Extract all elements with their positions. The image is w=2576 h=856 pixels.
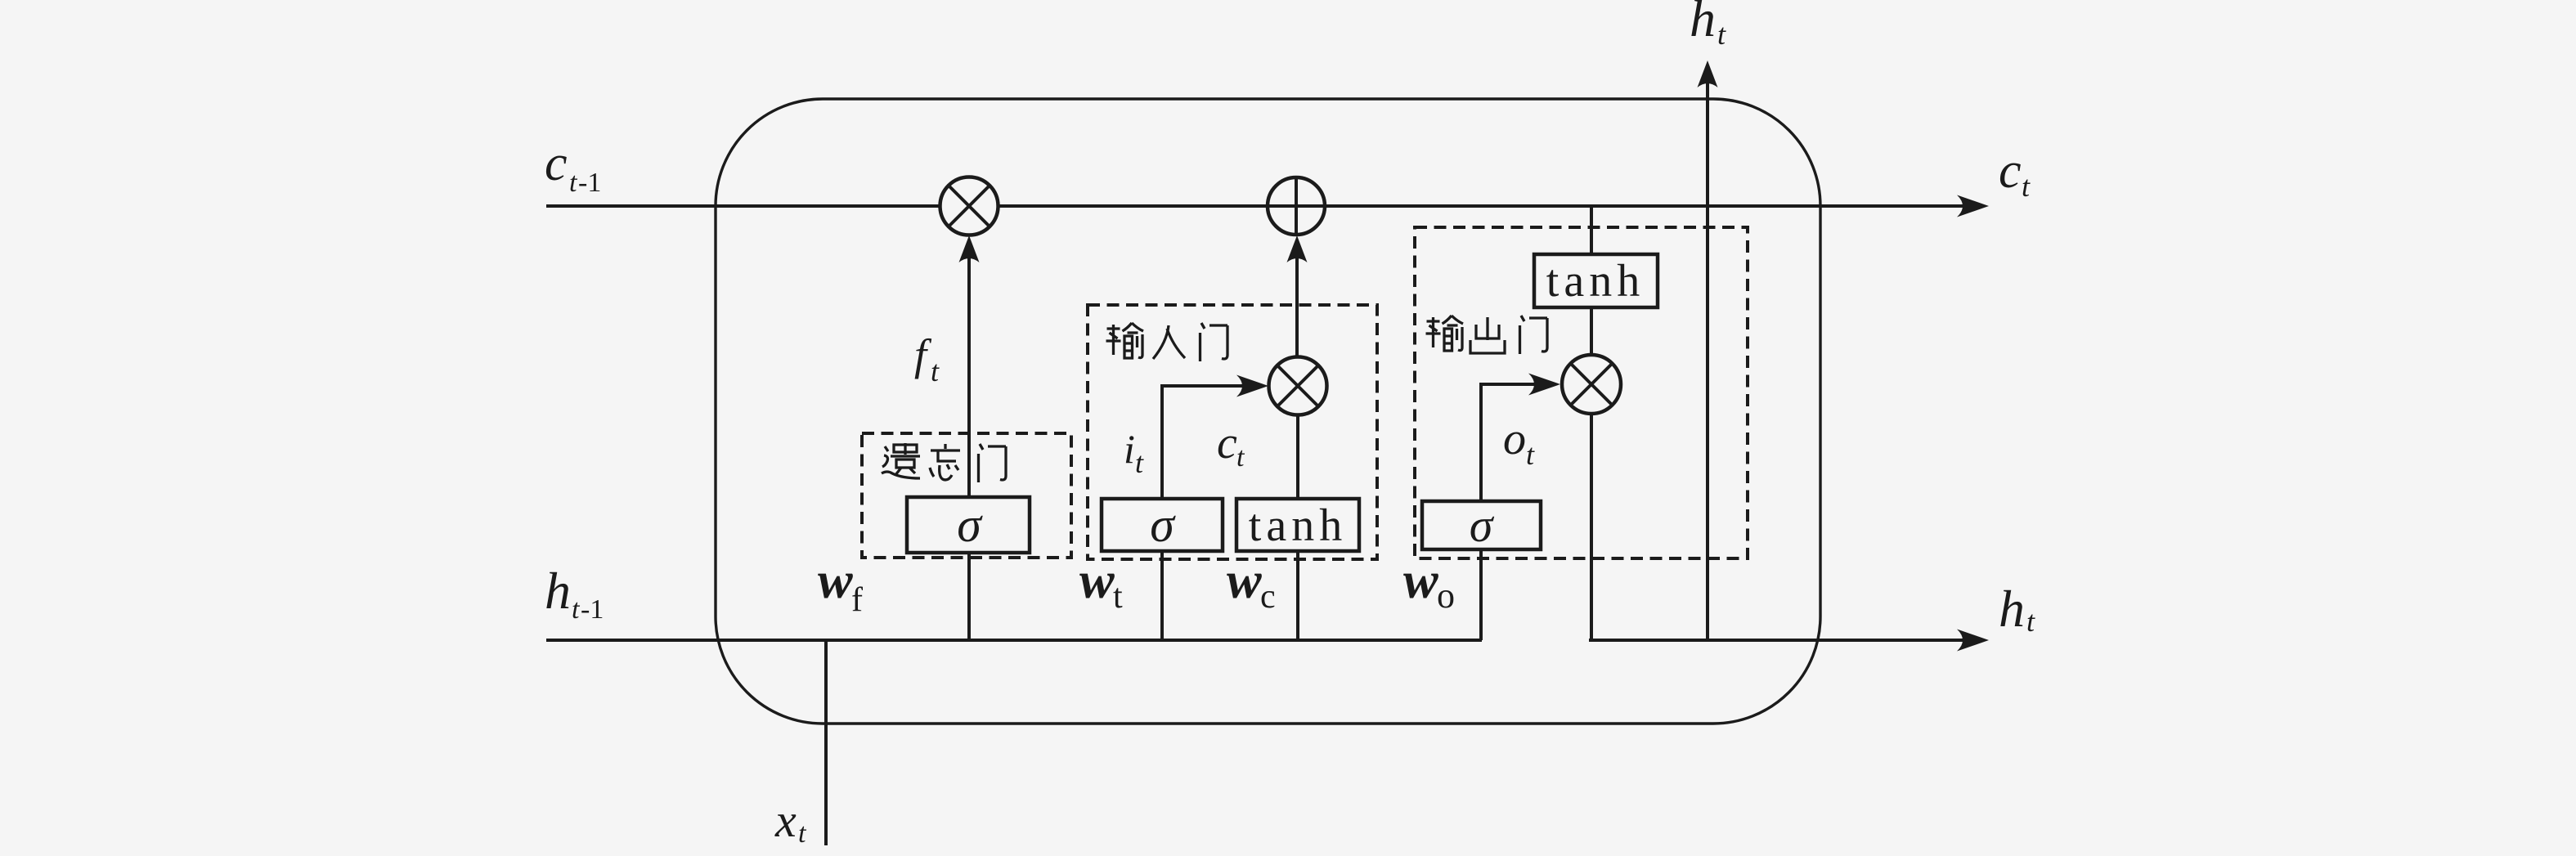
svg-text:t: t: [2026, 605, 2035, 638]
svg-text:x: x: [774, 794, 797, 847]
svg-text:w: w: [818, 551, 853, 609]
svg-text:o: o: [1437, 576, 1455, 616]
svg-text:i: i: [1124, 426, 1135, 472]
wire: tanh_o down to multiply_o: [1590, 307, 1593, 356]
wire: multiply_i up to plus: [1295, 245, 1299, 357]
wire: h_t output line (right segment): [1589, 639, 1972, 642]
multiply node input: [1269, 357, 1327, 415]
svg-text:t: t: [1113, 578, 1123, 616]
svg-text:t: t: [1236, 442, 1245, 473]
wire: c line down to tanh_o: [1590, 206, 1593, 254]
arrowhead into multiply_i: [1236, 375, 1268, 397]
arrowhead into multiply_f: [959, 235, 980, 262]
wire: c_{t-1} -> c_t horizontal cell-state line: [546, 204, 1972, 208]
wire: tanh_c up to multiply: [1296, 415, 1299, 499]
wire: output-gate elbow sigma_o to multiply: [1481, 384, 1555, 501]
svg-text:σ: σ: [957, 498, 983, 552]
遗忘门 forget gate label: [882, 443, 1006, 482]
svg-text:t: t: [572, 594, 581, 625]
svg-text:tanh: tanh: [1546, 256, 1645, 307]
X in multiply_o: [1572, 365, 1611, 404]
wire: sigma_f up to multiply (forget path): [967, 245, 971, 497]
yi: [882, 443, 920, 478]
arrowhead c_t: [1957, 195, 1989, 217]
CJK glyphs drawn as paths: [882, 316, 1547, 482]
sigma box forget: [907, 497, 1030, 553]
arrowhead h_t top: [1698, 61, 1718, 87]
sigma box input: [1102, 499, 1223, 551]
svg-text:f: f: [914, 330, 932, 379]
svg-text:t: t: [798, 818, 807, 849]
输入门 input gate label: [1106, 323, 1228, 361]
svg-text:c: c: [1217, 418, 1237, 468]
output gate dashed box: [1415, 227, 1748, 558]
multiply node output: [1562, 355, 1621, 414]
arrowhead into multiply_o: [1528, 374, 1560, 396]
wire: h_t vertical up through box top: [1706, 78, 1709, 640]
+ in plus node: [1268, 178, 1324, 234]
svg-text:f: f: [851, 581, 863, 619]
svg-text:tanh: tanh: [1249, 500, 1347, 551]
wire: input-gate elbow sigma_t to multiply: [1162, 386, 1263, 499]
multiply node forget: [940, 177, 999, 235]
tanh box input: [1236, 499, 1359, 551]
svg-text:t: t: [569, 168, 578, 198]
svg-text:σ: σ: [1150, 498, 1176, 552]
svg-text:t: t: [2022, 170, 2031, 203]
arrowhead h_t right: [1957, 630, 1989, 652]
svg-text:c: c: [545, 136, 568, 191]
X in multiply_f: [949, 186, 989, 226]
LSTM cell outer rounded box: [716, 99, 1820, 724]
输出门 output gate label: [1426, 316, 1548, 354]
svg-text:w: w: [1079, 551, 1115, 609]
svg-text:t: t: [1135, 446, 1144, 479]
svg-text:-1: -1: [581, 594, 604, 625]
sigma box output: [1422, 501, 1541, 549]
svg-text:t: t: [1717, 18, 1726, 51]
svg-text:σ: σ: [1470, 499, 1495, 552]
tanh box output: [1534, 254, 1658, 307]
wire: x_t vertical input: [824, 640, 828, 845]
svg-text:h: h: [1999, 580, 2025, 638]
wire: sigma_f down to h line: [967, 551, 971, 640]
svg-text:h: h: [1690, 0, 1716, 47]
svg-text:t: t: [931, 355, 940, 388]
wire: sigma_o down to h line: [1479, 549, 1483, 640]
svg-text:w: w: [1403, 551, 1438, 609]
wire: multiply_o down to h_t line: [1590, 413, 1593, 640]
svg-text:c: c: [1260, 578, 1276, 616]
svg-text:h: h: [545, 562, 571, 620]
arrowhead into plus: [1287, 235, 1308, 262]
forget gate dashed box: [862, 433, 1071, 558]
plus node: [1268, 177, 1325, 235]
X in multiply_i: [1278, 366, 1317, 406]
svg-text:t: t: [1526, 438, 1535, 471]
wire: h_{t-1} input line (left segment): [546, 639, 1482, 642]
svg-text:w: w: [1227, 551, 1262, 609]
svg-text:c: c: [1999, 143, 2022, 199]
input gate dashed box: [1088, 305, 1377, 559]
svg-text:o: o: [1503, 414, 1526, 464]
wire: sigma_t down to h line: [1160, 551, 1164, 640]
svg-text:-1: -1: [578, 168, 601, 198]
wire: tanh_c down to h line: [1296, 551, 1299, 640]
